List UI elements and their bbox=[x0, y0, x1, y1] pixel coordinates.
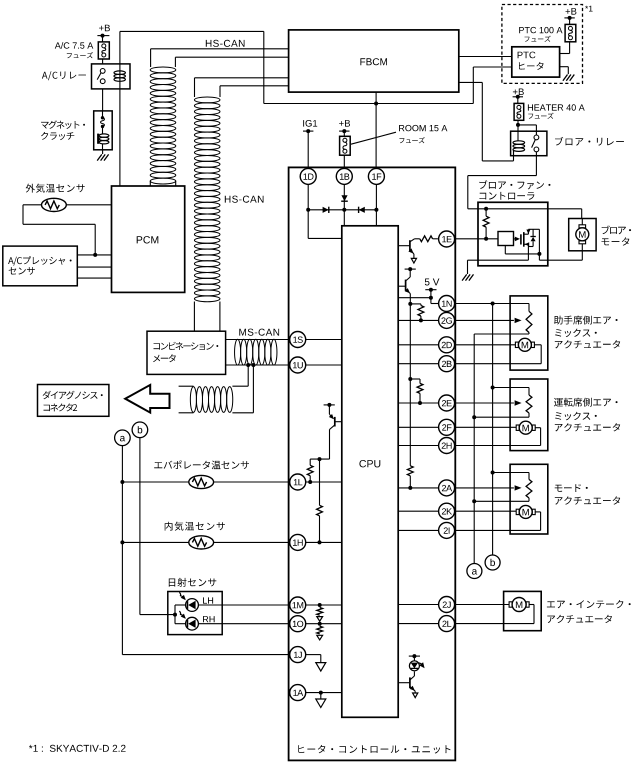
fuse HEATER 40A bbox=[514, 103, 524, 120]
wire motor return bbox=[539, 251, 582, 260]
wire diag pair b bbox=[232, 365, 253, 413]
resistor R7 (2E) bbox=[410, 379, 423, 405]
wire FBCM right 1 bbox=[459, 56, 512, 58]
pin 2B bbox=[439, 356, 455, 372]
node a (right) bbox=[467, 564, 482, 579]
node junction bbox=[374, 208, 378, 212]
potentiometer pot3 bbox=[474, 479, 532, 501]
wire driver to gate bbox=[514, 237, 521, 242]
wire 2I bbox=[398, 512, 540, 531]
label blower fan controller bbox=[479, 180, 550, 200]
relay blower coil bbox=[513, 141, 525, 156]
pin 1J bbox=[290, 647, 306, 663]
gate driver box bbox=[498, 232, 514, 246]
potentiometer pot2 bbox=[474, 395, 532, 417]
supply tick bbox=[405, 267, 416, 271]
node b (right) bbox=[485, 555, 500, 570]
wire 2B bbox=[398, 345, 541, 364]
wire relay to clutch bbox=[102, 89, 104, 111]
wire b vertical bbox=[140, 438, 175, 615]
fuse A/C 7.5A bbox=[98, 42, 109, 59]
AC pressure sensor box bbox=[3, 246, 78, 286]
wire ROOM fuse to 1B bbox=[343, 155, 345, 168]
PTC dashed box bbox=[502, 5, 583, 84]
clutch internals bbox=[98, 111, 109, 150]
thermistor outside air bbox=[42, 198, 67, 211]
wire 2G bbox=[398, 319, 514, 321]
wire pressure 1 bbox=[77, 254, 111, 256]
pin 1U bbox=[290, 357, 306, 373]
label PTC 100A fuse bbox=[519, 27, 562, 42]
pin 2I bbox=[439, 522, 455, 538]
wire 2H bbox=[398, 428, 540, 446]
wire fuse to relay bbox=[516, 120, 536, 140]
label CPU bbox=[359, 460, 380, 467]
node junction bbox=[120, 540, 124, 544]
photodiode LH bbox=[179, 592, 198, 611]
resistor pull-up bbox=[483, 209, 489, 239]
wire b vertical (right) bbox=[492, 304, 494, 556]
label air mix actuator (driver) bbox=[554, 398, 620, 432]
wire PTC +B jog bbox=[473, 67, 512, 104]
resistor R8 (2A) bbox=[407, 379, 413, 490]
node junction bbox=[251, 363, 255, 367]
blower motor box bbox=[569, 219, 596, 251]
pin 1L bbox=[290, 474, 306, 490]
node junction bbox=[408, 377, 412, 381]
node junction bbox=[472, 415, 476, 419]
pin 1B bbox=[336, 168, 352, 184]
relay A/C box bbox=[92, 64, 131, 89]
power IG1 bbox=[303, 120, 317, 168]
air intake actuator box bbox=[504, 591, 542, 630]
label ROOM 15A fuse bbox=[351, 125, 447, 144]
resistor R5 (1E) bbox=[415, 236, 438, 242]
pin 2K bbox=[439, 503, 455, 519]
resistor R3 (1M pulldown) bbox=[317, 608, 323, 622]
twisted pair MS-CAN bbox=[235, 339, 277, 365]
wire to 1N bbox=[431, 303, 439, 305]
diode D1 (1B down) bbox=[341, 195, 348, 201]
wire relay coil rail bbox=[120, 31, 264, 186]
pin 2A bbox=[439, 480, 455, 496]
LED D4 bbox=[409, 661, 424, 671]
CPU box bbox=[342, 226, 398, 718]
wire 2D bbox=[398, 344, 515, 346]
label outside air temp sensor bbox=[26, 184, 85, 193]
node junction bbox=[306, 208, 310, 212]
pin 1O bbox=[290, 616, 306, 632]
wire a vertical bbox=[122, 446, 290, 655]
wire relay to controller bbox=[468, 152, 537, 209]
resistor R1 (1L pullup) bbox=[307, 459, 313, 482]
wire 1J bbox=[306, 655, 321, 663]
label mode actuator bbox=[555, 484, 621, 505]
wire collector node bbox=[310, 457, 329, 461]
wire diag stub b bbox=[179, 412, 194, 414]
arrow to diagnosis connector bbox=[125, 385, 169, 413]
motor M4 bbox=[509, 598, 529, 612]
label PCM bbox=[137, 236, 159, 243]
power +B (A/C fuse) bbox=[97, 25, 110, 42]
label FBCM bbox=[360, 58, 387, 65]
thermistor evaporator bbox=[189, 475, 214, 488]
relay blower box bbox=[511, 131, 547, 156]
pin 1M bbox=[290, 597, 306, 613]
node junction bbox=[537, 252, 541, 256]
wire 1B down bbox=[343, 184, 345, 225]
node junction bbox=[429, 296, 433, 300]
wire HS-CAN 1a bbox=[151, 49, 289, 67]
transistor Q1 NPN bbox=[398, 239, 414, 259]
diode D3 (from 1F) bbox=[359, 207, 365, 213]
combination meter box bbox=[147, 331, 226, 374]
wire 2L bbox=[398, 605, 534, 624]
heater control unit box bbox=[289, 167, 456, 760]
clutch magnet box bbox=[94, 111, 113, 150]
node junction bbox=[408, 302, 412, 306]
motor M2 bbox=[516, 421, 535, 434]
resistor R4 (1O pulldown) bbox=[317, 626, 323, 640]
fuse PTC 100A bbox=[565, 24, 576, 41]
wire 1M left bbox=[198, 604, 290, 606]
diode D2 (from 1D) bbox=[323, 207, 329, 213]
arrow (Q1 emitter) bbox=[411, 258, 416, 263]
wire sun internal bbox=[173, 605, 186, 624]
label air intake actuator bbox=[547, 600, 631, 623]
node junction bbox=[318, 540, 322, 544]
label blower relay bbox=[555, 137, 624, 146]
pin 1N bbox=[439, 296, 455, 312]
wire a vertical (right) bbox=[474, 333, 529, 564]
transistor Q3 NPN bbox=[398, 672, 415, 694]
motor M3 bbox=[516, 505, 535, 518]
twisted pair HS-CAN 1 bbox=[150, 67, 176, 184]
pin 1S bbox=[290, 332, 306, 348]
pin 1A bbox=[290, 685, 306, 701]
supply tick bbox=[409, 654, 420, 661]
ground (controller) bbox=[462, 274, 473, 280]
label PTC heater bbox=[518, 52, 544, 70]
label sunlight sensor bbox=[169, 578, 217, 587]
node junction bbox=[120, 480, 124, 484]
wire pot3 feed bbox=[491, 471, 529, 480]
label HS-CAN (mid) bbox=[225, 196, 264, 203]
node junction bbox=[246, 363, 250, 367]
wire 1S bbox=[290, 339, 342, 341]
label RH bbox=[203, 616, 215, 622]
power +B (ROOM) bbox=[339, 120, 350, 136]
power +B (PTC) bbox=[564, 8, 576, 24]
wire coil1 to PCM bbox=[150, 181, 175, 186]
wire rail to motor bbox=[581, 209, 583, 219]
ground (PTC) bbox=[563, 75, 574, 81]
wire 2K bbox=[398, 510, 516, 512]
pin 1H bbox=[290, 534, 306, 550]
node junction bbox=[472, 499, 476, 503]
label heater control unit bbox=[298, 745, 450, 754]
wire coil2 to meter bbox=[194, 302, 220, 332]
MOSFET Q4 bbox=[521, 229, 540, 254]
node b (left) bbox=[132, 422, 148, 438]
controller box bbox=[478, 202, 548, 265]
label air mix actuator (passenger) bbox=[554, 316, 620, 349]
resistor R6 (2G) bbox=[410, 304, 424, 323]
label evaporator temp sensor bbox=[154, 460, 249, 469]
pin 1E bbox=[439, 231, 455, 247]
twisted pair diagnosis bbox=[190, 387, 232, 413]
label A/C relay bbox=[42, 71, 86, 80]
supply tick 5V bbox=[425, 288, 436, 304]
pin 2L bbox=[439, 616, 455, 632]
PTC heater box bbox=[512, 47, 560, 77]
node junction bbox=[491, 302, 495, 306]
node a (left) bbox=[115, 430, 131, 446]
sunlight sensor box bbox=[168, 592, 222, 635]
relay A/C contacts bbox=[97, 69, 105, 84]
footnote bbox=[29, 745, 126, 752]
wire diag stub a bbox=[179, 385, 194, 387]
label A/C 7.5 A fuse bbox=[55, 42, 94, 58]
wire 2A bbox=[398, 487, 514, 489]
wire 2E bbox=[398, 402, 514, 404]
diagnosis connector box bbox=[38, 385, 109, 417]
wire PTC fuse to heater bbox=[560, 42, 570, 54]
wire 1E input bbox=[438, 238, 498, 240]
wire controller ground bbox=[468, 260, 529, 274]
supply tick bbox=[324, 403, 335, 407]
wire 2J bbox=[398, 604, 513, 606]
ground (clutch) bbox=[97, 154, 108, 160]
label HEATER 40A fuse bbox=[528, 104, 585, 119]
actuator1 box bbox=[510, 296, 548, 370]
wire 1M right bbox=[306, 604, 342, 606]
wire 1D down bbox=[308, 184, 342, 238]
actuator3 box bbox=[510, 464, 548, 534]
wire pressure 2 bbox=[77, 266, 111, 268]
wire meter to 1U bbox=[226, 364, 290, 366]
wire PTC ground bbox=[560, 67, 569, 74]
pin 2F bbox=[439, 419, 455, 435]
ground arrow (1A) bbox=[316, 699, 326, 708]
wire pot2 feed bbox=[491, 386, 529, 396]
node junction bbox=[342, 208, 346, 212]
wire +B rail down bbox=[263, 31, 265, 103]
wire CPU to 5V node bbox=[398, 297, 431, 299]
pin 2H bbox=[439, 438, 455, 454]
wire HS-CAN 2b bbox=[220, 86, 289, 97]
node junction bbox=[308, 480, 312, 484]
node junction bbox=[484, 237, 488, 241]
label blower motor bbox=[602, 226, 632, 246]
pin 2D bbox=[439, 337, 455, 353]
wire 1O right bbox=[306, 623, 342, 625]
wire diag pair a bbox=[232, 365, 248, 386]
node junction bbox=[318, 603, 322, 607]
actuator2 box bbox=[510, 379, 548, 451]
pin 2G bbox=[439, 312, 455, 328]
fuse ROOM 15A bbox=[340, 136, 351, 155]
wire 1O left bbox=[198, 623, 290, 625]
label combination meter bbox=[153, 342, 218, 362]
wire FBCM bottom junction bbox=[375, 92, 377, 168]
potentiometer pot1 bbox=[515, 311, 532, 332]
twisted pair HS-CAN 2 bbox=[194, 97, 220, 302]
label HS-CAN (top) bbox=[206, 40, 245, 47]
node junction bbox=[374, 102, 378, 106]
node junction bbox=[93, 253, 97, 257]
node junction bbox=[484, 207, 488, 211]
ground arrow (1J) bbox=[316, 663, 326, 672]
pin 2E bbox=[439, 395, 455, 411]
power +B (heater) bbox=[513, 89, 524, 104]
label *1 bbox=[585, 6, 593, 12]
thermistor room temp bbox=[189, 536, 214, 549]
wire 1H bbox=[122, 541, 341, 543]
transistor Q2 NPN bbox=[398, 269, 410, 379]
transistor Q5 PNP bbox=[329, 405, 342, 459]
label room temp sensor bbox=[165, 522, 225, 531]
wire 1U bbox=[290, 364, 342, 366]
motor blower bbox=[576, 219, 589, 251]
wire 1N bbox=[439, 304, 529, 312]
wire 2F bbox=[398, 426, 516, 428]
PCM box bbox=[112, 186, 185, 292]
wire clutch to ground bbox=[102, 150, 104, 154]
wire pressure 3 bbox=[77, 277, 111, 279]
wire source rail bbox=[505, 244, 539, 260]
pin 2J bbox=[439, 597, 455, 613]
wire fuse to relay bbox=[102, 59, 104, 64]
label MS-CAN bbox=[239, 329, 279, 336]
wire diode node bbox=[308, 209, 376, 211]
label LH bbox=[203, 597, 213, 603]
motor M1 bbox=[515, 338, 534, 351]
wire +B rail to PTC bbox=[264, 103, 474, 105]
label magnet clutch bbox=[41, 120, 85, 140]
resistor R2 (1L-1H) bbox=[317, 459, 323, 542]
wire 1A bbox=[306, 691, 342, 699]
relay A/C coil bbox=[114, 71, 125, 81]
relay blower contacts bbox=[532, 135, 539, 152]
wire meter to 1S bbox=[226, 339, 290, 341]
label A/C pressure sensor bbox=[8, 256, 72, 274]
wire therm return bbox=[23, 205, 95, 255]
label 5V bbox=[425, 279, 440, 286]
pin 1F bbox=[368, 168, 384, 184]
wire HS-CAN 2a bbox=[195, 78, 289, 97]
FBCM box bbox=[289, 30, 459, 92]
wire 1L bbox=[122, 481, 341, 483]
wire controller top rail bbox=[468, 208, 582, 210]
wire HS-CAN 1b bbox=[175, 57, 288, 67]
wire 1F down bbox=[375, 168, 377, 225]
wire FBCM right 2 bbox=[459, 82, 514, 160]
node junction bbox=[318, 622, 322, 626]
photodiode RH bbox=[179, 611, 198, 630]
label diagnosis connector 2 bbox=[43, 391, 103, 412]
pin 1D bbox=[300, 168, 316, 184]
arrow (Q3 emitter) bbox=[413, 693, 418, 698]
wire therm to PCM bbox=[66, 204, 111, 206]
